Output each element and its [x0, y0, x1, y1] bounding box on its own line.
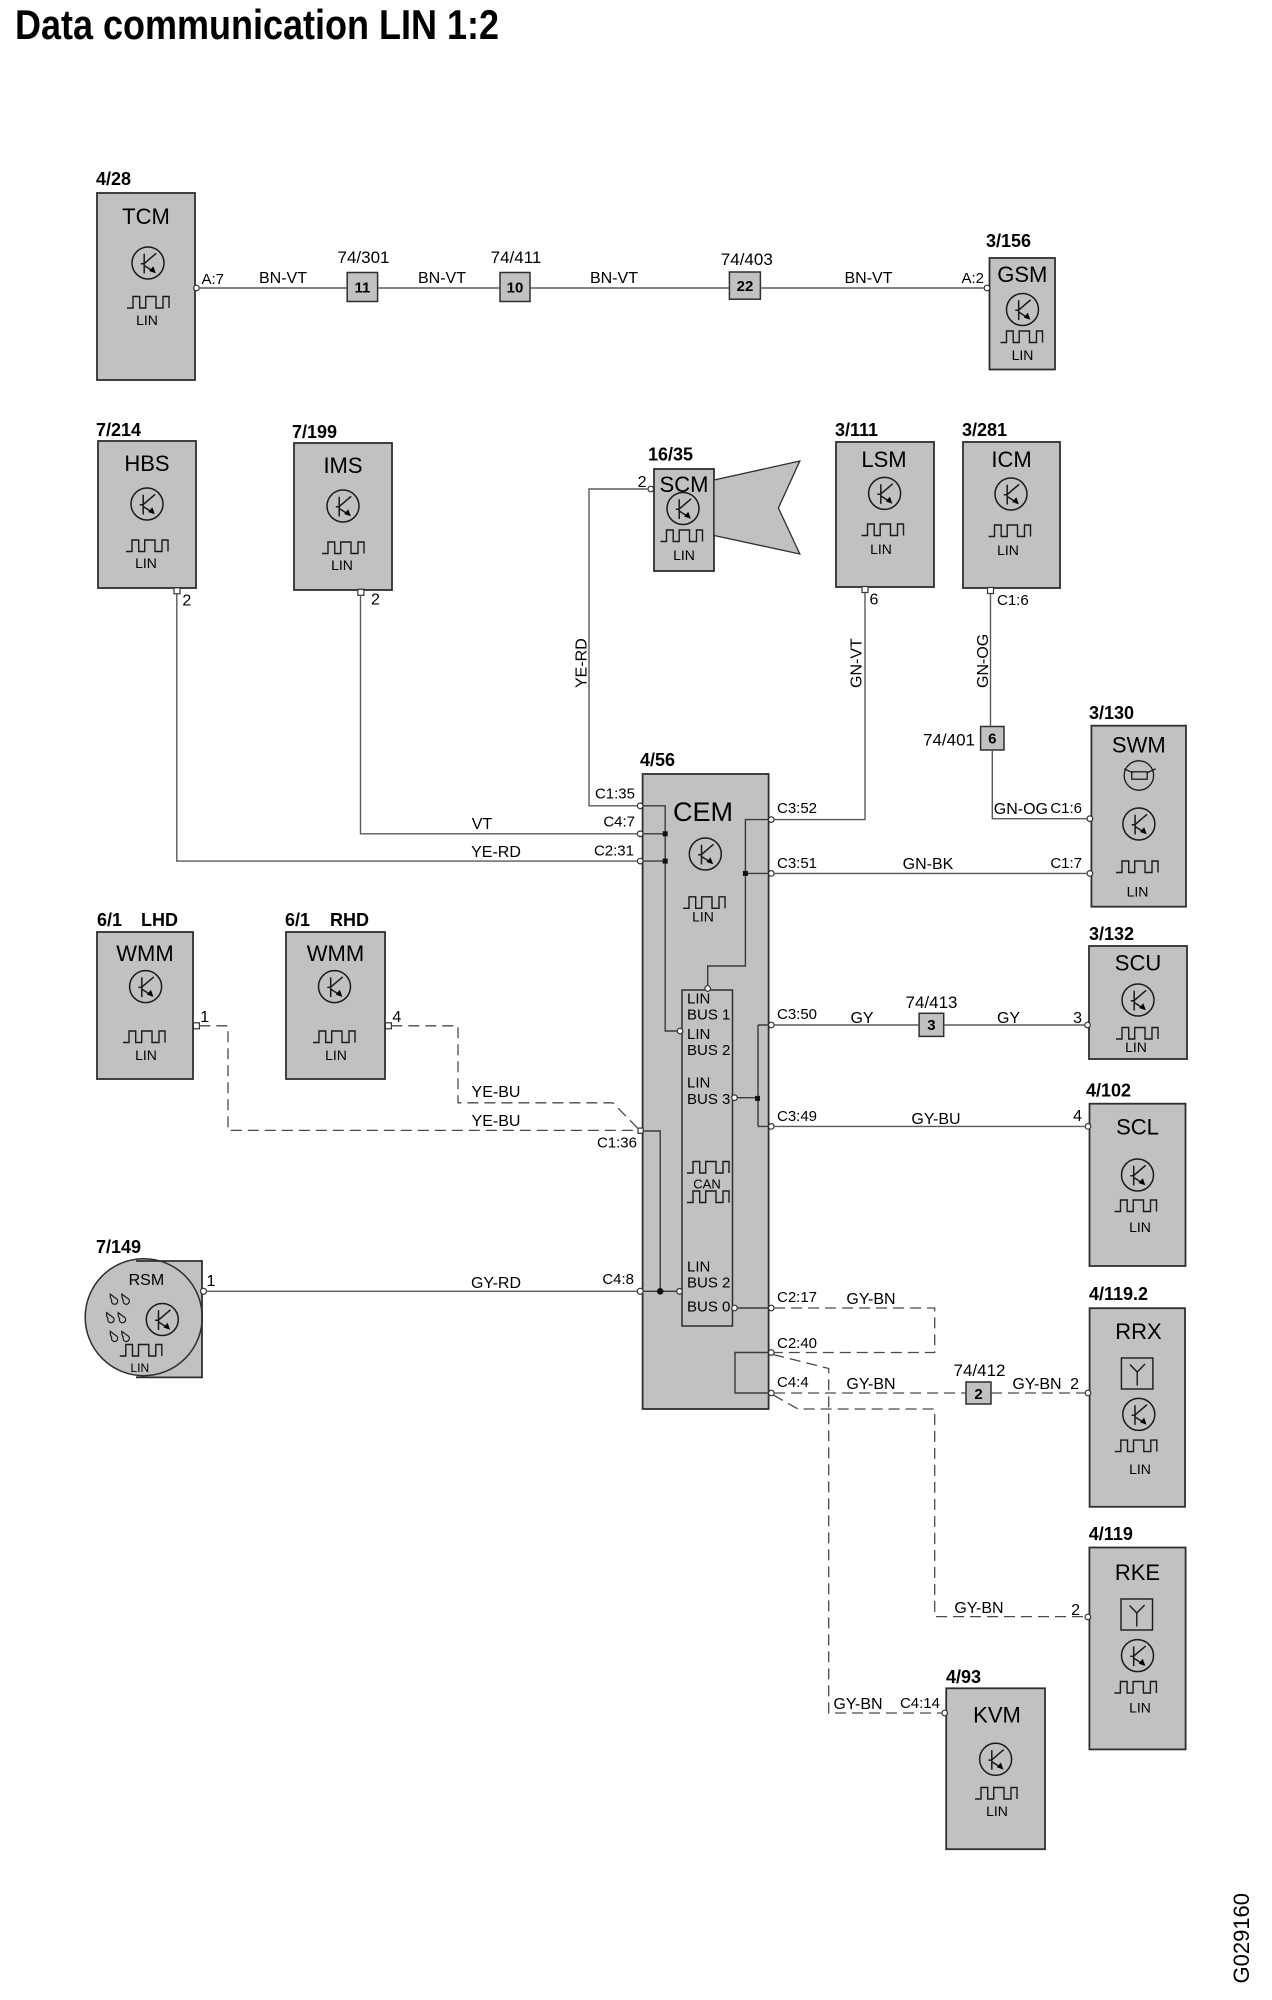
- svg-text:BUS 2: BUS 2: [687, 1274, 730, 1291]
- connector 74/411 pin 10: [491, 248, 542, 302]
- svg-text:YE-RD: YE-RD: [574, 638, 591, 688]
- pin CEM inner bus top: [705, 986, 711, 992]
- connector 74/413 pin 3: [906, 993, 958, 1036]
- module WMM 6/1 LHD: [97, 910, 193, 1079]
- wire CEM internal C3:52/C3:51 to bus top: [708, 820, 769, 986]
- svg-text:4: 4: [1073, 1108, 1082, 1125]
- svg-text:C3:50: C3:50: [777, 1006, 817, 1023]
- svg-text:6: 6: [870, 592, 879, 609]
- pin IMS 2: [358, 589, 380, 608]
- wire GN-OG 74/401 to SWM C1:6: [992, 750, 1087, 819]
- module LSM 3/111: [835, 420, 934, 587]
- svg-text:LIN: LIN: [1129, 1461, 1151, 1477]
- svg-text:6: 6: [988, 731, 996, 748]
- wire GY-BN CEM C4:4 to 74/412: [774, 1376, 966, 1393]
- pin SCL 4: [1073, 1108, 1091, 1129]
- module SCL 4/102: [1086, 1081, 1186, 1267]
- svg-text:C4:14: C4:14: [900, 1695, 940, 1712]
- wire CEM internal C1:35/C4:7/C2:31 to LIN BUS 2: [644, 806, 678, 1031]
- svg-text:RKE: RKE: [1115, 1560, 1160, 1585]
- svg-text:LIN: LIN: [986, 1803, 1008, 1819]
- svg-text:GN-VT: GN-VT: [849, 638, 866, 688]
- svg-text:GY-BN: GY-BN: [833, 1696, 882, 1713]
- svg-text:GY-BN: GY-BN: [846, 1291, 895, 1308]
- wire YE-BU WMM RHD 4 to CEM C1:36: [391, 1026, 637, 1129]
- svg-text:GY-RD: GY-RD: [471, 1275, 521, 1292]
- svg-text:GN-BK: GN-BK: [903, 856, 954, 873]
- svg-text:LIN: LIN: [135, 1047, 157, 1063]
- svg-text:22: 22: [737, 278, 754, 295]
- module KVM 4/93: [946, 1667, 1045, 1849]
- svg-text:LSM: LSM: [861, 447, 906, 472]
- svg-text:C4:4: C4:4: [777, 1374, 809, 1391]
- svg-text:GSM: GSM: [997, 262, 1047, 287]
- svg-text:74/413: 74/413: [906, 993, 958, 1012]
- svg-text:2: 2: [1070, 1376, 1079, 1393]
- svg-text:11: 11: [354, 280, 370, 297]
- pin CEM C4:7: [603, 814, 643, 837]
- pin CEM C2:17: [769, 1289, 818, 1311]
- module SWM 3/130: [1089, 703, 1186, 907]
- module ICM 3/281: [962, 420, 1060, 588]
- svg-text:VT: VT: [472, 816, 493, 833]
- pin CEM C3:49: [769, 1108, 818, 1129]
- svg-text:C1:35: C1:35: [595, 786, 635, 803]
- svg-text:LHD: LHD: [141, 910, 178, 930]
- svg-text:LIN: LIN: [135, 555, 157, 571]
- svg-text:LIN: LIN: [687, 1259, 710, 1276]
- svg-text:ICM: ICM: [991, 447, 1031, 472]
- svg-text:IMS: IMS: [323, 453, 362, 478]
- wire GY-BN CEM C2:40 to KVM C4:14: [773, 1355, 942, 1714]
- svg-text:74/301: 74/301: [338, 248, 390, 267]
- wire GY-BN 74/412 to RRX 2: [991, 1376, 1085, 1393]
- svg-text:BN-VT: BN-VT: [259, 270, 307, 287]
- svg-text:3: 3: [927, 1017, 935, 1034]
- svg-text:C3:49: C3:49: [777, 1108, 817, 1125]
- pin LSM 6: [862, 587, 879, 609]
- svg-text:C3:52: C3:52: [777, 800, 817, 817]
- module HBS 7/214: [96, 420, 196, 588]
- svg-text:BUS 0: BUS 0: [687, 1298, 730, 1315]
- svg-text:4: 4: [392, 1009, 401, 1026]
- svg-text:3/156: 3/156: [986, 231, 1031, 251]
- svg-text:KVM: KVM: [973, 1703, 1021, 1728]
- svg-text:4/102: 4/102: [1086, 1081, 1131, 1101]
- pin CEM inner LIN BUS 3: [732, 1095, 738, 1101]
- svg-text:BN-VT: BN-VT: [845, 270, 893, 287]
- svg-text:GY-BU: GY-BU: [911, 1111, 960, 1128]
- svg-text:3/130: 3/130: [1089, 703, 1134, 723]
- wire BN-VT 74/403 to GSM A:2: [760, 270, 984, 288]
- pin CEM C1:36: [597, 1128, 643, 1151]
- svg-text:4/93: 4/93: [946, 1667, 981, 1687]
- svg-text:3/111: 3/111: [835, 420, 878, 440]
- junction C2:31: [663, 859, 668, 864]
- svg-text:10: 10: [507, 280, 524, 297]
- junction C4:7: [663, 831, 668, 836]
- module WMM 6/1 RHD: [285, 910, 385, 1079]
- wire BN-VT TCM A:7 to 74/301: [199, 270, 347, 288]
- svg-text:LIN: LIN: [1129, 1219, 1151, 1235]
- wire GY-BN CEM C2:17 to C2:40 loop: [774, 1291, 935, 1353]
- svg-text:6/1: 6/1: [97, 910, 122, 930]
- svg-text:C2:17: C2:17: [777, 1289, 817, 1306]
- svg-text:74/412: 74/412: [954, 1361, 1006, 1380]
- pin RSM 1: [201, 1273, 216, 1294]
- svg-text:SCL: SCL: [1116, 1115, 1159, 1140]
- svg-text:C2:31: C2:31: [594, 843, 634, 860]
- pin SCU 3: [1073, 1010, 1090, 1028]
- pin CEM C3:52: [769, 800, 818, 822]
- wire GN-VT LSM 6 to CEM C3:52: [774, 593, 865, 820]
- module TCM 4/28: [96, 169, 195, 380]
- svg-text:C1:7: C1:7: [1050, 855, 1082, 872]
- wire GN-OG ICM C1:6 to 74/401: [975, 594, 992, 727]
- svg-text:RSM: RSM: [129, 1272, 165, 1289]
- pin RKE 2: [1071, 1602, 1091, 1620]
- svg-text:A:7: A:7: [202, 271, 225, 288]
- svg-text:GY: GY: [997, 1010, 1020, 1027]
- svg-text:74/401: 74/401: [923, 731, 975, 750]
- svg-text:GY-BN: GY-BN: [846, 1376, 895, 1393]
- pin CEM inner LIN BUS 2 upper: [677, 1028, 683, 1034]
- svg-text:C1:36: C1:36: [597, 1135, 637, 1152]
- svg-text:LIN: LIN: [1125, 1039, 1147, 1055]
- connector 74/403 pin 22: [721, 250, 773, 299]
- pin CEM C2:40: [769, 1335, 818, 1355]
- junction C4:8: [657, 1288, 664, 1295]
- svg-text:LIN: LIN: [325, 1047, 347, 1063]
- svg-text:7/214: 7/214: [96, 420, 141, 440]
- svg-text:LIN: LIN: [130, 1361, 149, 1375]
- wire BN-VT 74/411 to 74/403: [530, 270, 729, 288]
- CEM inner LIN BUS block: [682, 990, 733, 1326]
- wire VT IMS 2 to CEM C4:7: [361, 595, 638, 834]
- svg-text:G029160: G029160: [1229, 1893, 1254, 1984]
- svg-text:BUS 1: BUS 1: [687, 1006, 730, 1023]
- connector 74/301 pin 11: [338, 248, 390, 302]
- svg-text:3/281: 3/281: [962, 420, 1007, 440]
- svg-text:YE-BU: YE-BU: [472, 1113, 521, 1130]
- svg-text:4/119.2: 4/119.2: [1089, 1284, 1148, 1304]
- svg-text:LIN: LIN: [1129, 1700, 1151, 1716]
- svg-text:SCU: SCU: [1115, 951, 1161, 976]
- module IMS 7/199: [292, 422, 392, 590]
- pin WMM-LHD 1: [193, 1009, 209, 1029]
- svg-text:3/132: 3/132: [1089, 924, 1134, 944]
- wire CEM internal C4:8 to LIN BUS 2 lower: [644, 1290, 678, 1292]
- wire GN-BK CEM C3:51 to SWM C1:7: [774, 855, 1087, 873]
- svg-text:4/28: 4/28: [96, 169, 131, 189]
- pin CEM C4:8: [602, 1271, 643, 1294]
- wire GY-BN CEM C4:4 to RKE 2: [773, 1395, 1085, 1617]
- svg-text:A:2: A:2: [961, 270, 984, 287]
- connector 74/412 pin 2: [954, 1361, 1006, 1404]
- svg-text:2: 2: [371, 592, 380, 609]
- pin CEM C1:35: [595, 786, 643, 809]
- svg-text:LIN: LIN: [136, 312, 158, 328]
- pin SWM C1:6: [1087, 816, 1093, 822]
- wire YE-RD SCM 2 to CEM C1:35: [574, 489, 649, 806]
- svg-text:Data communication LIN 1:2: Data communication LIN 1:2: [15, 1, 499, 48]
- svg-text:RHD: RHD: [330, 910, 369, 930]
- pin HBS 2: [174, 588, 191, 610]
- svg-text:GY-BN: GY-BN: [1012, 1376, 1061, 1393]
- svg-text:LIN: LIN: [692, 909, 714, 925]
- svg-text:1: 1: [200, 1009, 209, 1026]
- svg-text:C4:7: C4:7: [603, 814, 635, 831]
- pin CEM inner BUS 0: [732, 1305, 738, 1311]
- module RRX 4/119.2: [1089, 1284, 1185, 1507]
- svg-text:LIN: LIN: [687, 1026, 710, 1043]
- wire CEM internal LIN BUS 3 to C3:50/C3:49: [737, 1025, 768, 1126]
- svg-text:LIN: LIN: [1012, 347, 1034, 363]
- pin CEM C2:31: [594, 843, 643, 864]
- pin SWM C1:7: [1087, 871, 1093, 877]
- svg-text:LIN: LIN: [997, 542, 1019, 558]
- connector 74/401 pin 6: [923, 727, 1004, 751]
- svg-text:LIN: LIN: [331, 557, 353, 573]
- module SCM 16/35: [648, 445, 714, 572]
- svg-text:LIN: LIN: [673, 547, 695, 563]
- svg-text:7/149: 7/149: [96, 1237, 141, 1257]
- svg-text:C1:6: C1:6: [1050, 800, 1082, 817]
- svg-text:LIN: LIN: [687, 1075, 710, 1092]
- svg-text:GY-BN: GY-BN: [954, 1600, 1003, 1617]
- svg-text:LIN: LIN: [870, 541, 892, 557]
- junction LIN BUS 3: [755, 1096, 760, 1101]
- svg-text:C4:8: C4:8: [602, 1271, 634, 1288]
- svg-text:WMM: WMM: [307, 941, 364, 966]
- junction C3:51: [743, 871, 748, 876]
- svg-text:SWM: SWM: [1112, 732, 1166, 757]
- svg-text:RRX: RRX: [1115, 1319, 1162, 1344]
- svg-text:C2:40: C2:40: [777, 1335, 817, 1352]
- svg-text:LIN: LIN: [687, 990, 710, 1007]
- module GSM 3/156: [986, 231, 1055, 370]
- svg-text:HBS: HBS: [124, 451, 169, 476]
- pin CEM C4:4: [769, 1374, 809, 1396]
- svg-text:BN-VT: BN-VT: [418, 270, 466, 287]
- svg-text:CEM: CEM: [673, 797, 733, 827]
- module RSM 7/149: [85, 1237, 202, 1377]
- wire BN-VT 74/301 to 74/411: [378, 270, 500, 288]
- svg-text:TCM: TCM: [122, 204, 170, 229]
- svg-text:2: 2: [182, 593, 191, 610]
- svg-text:WMM: WMM: [116, 941, 173, 966]
- pin CEM C3:50: [769, 1006, 818, 1028]
- pin CEM inner LIN BUS 2 lower: [677, 1289, 683, 1295]
- svg-text:BUS 2: BUS 2: [687, 1042, 730, 1059]
- wire GY 74/413 to SCU 3: [944, 1010, 1085, 1027]
- wire GY-RD RSM 1 to CEM C4:8: [207, 1275, 638, 1292]
- wire YE-BU WMM LHD 1 to CEM C1:36: [199, 1026, 637, 1131]
- svg-text:YE-BU: YE-BU: [472, 1084, 521, 1101]
- module SCU 3/132: [1089, 924, 1187, 1059]
- wire CEM internal C1:36 down to C4:8 line: [644, 1131, 661, 1291]
- wire CEM internal C2:40 to C4:4 loop: [735, 1353, 769, 1394]
- svg-text:BUS 3: BUS 3: [687, 1091, 730, 1108]
- pin RRX 2: [1070, 1376, 1091, 1396]
- svg-text:74/411: 74/411: [491, 248, 542, 267]
- svg-text:GN-OG: GN-OG: [975, 634, 992, 688]
- svg-text:4/119: 4/119: [1089, 1524, 1133, 1544]
- svg-text:YE-RD: YE-RD: [471, 844, 521, 861]
- pin KVM C4:14: [900, 1695, 948, 1716]
- svg-text:BN-VT: BN-VT: [590, 270, 638, 287]
- wire GY CEM C3:50 to 74/413: [774, 1010, 919, 1027]
- svg-text:GN-OG: GN-OG: [994, 801, 1048, 818]
- svg-text:LIN: LIN: [1127, 884, 1149, 900]
- pin WMM-RHD 4: [385, 1009, 401, 1029]
- svg-text:C1:6: C1:6: [997, 592, 1029, 609]
- wire YE-RD HBS 2 to CEM C2:31: [177, 594, 638, 861]
- pin GSM A:2: [961, 270, 989, 291]
- svg-text:CAN: CAN: [693, 1177, 720, 1192]
- svg-text:GY: GY: [850, 1010, 873, 1027]
- pin CEM C3:51: [769, 855, 818, 876]
- SCM flag symbol: [714, 461, 800, 554]
- svg-text:74/403: 74/403: [721, 250, 773, 269]
- svg-text:2: 2: [974, 1386, 982, 1403]
- pin SCM 2: [638, 474, 654, 492]
- module CEM 4/56: [640, 750, 769, 1409]
- svg-text:4/56: 4/56: [640, 750, 675, 770]
- svg-text:7/199: 7/199: [292, 422, 337, 442]
- svg-text:1: 1: [207, 1273, 216, 1290]
- svg-text:C3:51: C3:51: [777, 855, 817, 872]
- module RKE 4/119: [1089, 1524, 1186, 1749]
- wire GY-BU CEM C3:49 to SCL 4: [774, 1111, 1085, 1128]
- wire CEM internal BUS 0 to C2:17: [737, 1307, 768, 1309]
- svg-text:6/1: 6/1: [285, 910, 310, 930]
- pin ICM C1:6: [988, 588, 1029, 610]
- pin TCM A:7: [194, 271, 224, 291]
- svg-text:16/35: 16/35: [648, 445, 693, 465]
